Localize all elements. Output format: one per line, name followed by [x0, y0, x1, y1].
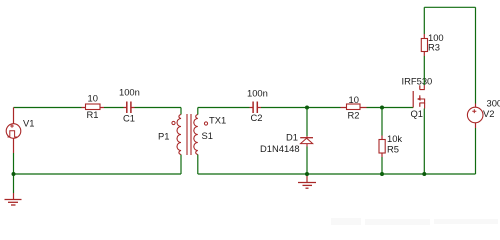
wire drain up: [423, 56, 425, 85]
wire primary bottom down to rail: [180, 155, 182, 175]
wire top-left horizontal V1 to R1: [14, 107, 82, 109]
wire R5 to rail: [381, 157, 383, 174]
svg-text:10k: 10k: [387, 133, 402, 144]
svg-text:R3: R3: [428, 42, 440, 53]
svg-text:C1: C1: [123, 112, 135, 123]
drain hook: [420, 85, 425, 90]
junction ground right: [305, 172, 309, 176]
wire secondary top stub: [197, 108, 199, 115]
svg-text:D1: D1: [286, 132, 298, 143]
wire R5 down: [381, 108, 383, 136]
top rail: [424, 6, 475, 8]
ground right: [298, 174, 316, 188]
svg-text:P1: P1: [158, 131, 169, 142]
bottom rail right: [198, 173, 476, 175]
svg-text:100n: 100n: [247, 87, 268, 98]
core: [186, 114, 188, 155]
ground left: [5, 174, 22, 205]
wire D1 down: [306, 108, 308, 137]
gate bar: [412, 91, 414, 108]
source V2: [467, 98, 500, 123]
wire R1 to C1: [104, 107, 124, 109]
source lead: [424, 103, 426, 109]
junction V1/ground: [12, 172, 16, 176]
wire V1 vertical bottom: [13, 138, 15, 153]
wire source down to rail: [423, 109, 425, 175]
svg-text:R1: R1: [87, 109, 99, 120]
wire V2 bottom: [475, 123, 477, 128]
wire secondary bottom to rail: [197, 155, 199, 175]
wire V1 vertical top: [13, 108, 15, 125]
svg-text:10: 10: [349, 94, 359, 105]
wire C2 to node: [261, 107, 341, 109]
source V1: [6, 118, 34, 139]
channel top tick: [419, 85, 421, 89]
svg-text:R5: R5: [387, 144, 399, 155]
diode D1: [260, 132, 313, 155]
watermark: [331, 218, 498, 225]
wire primary top stub down: [180, 108, 182, 115]
svg-text:Q1: Q1: [411, 108, 424, 119]
svg-text:V1: V1: [23, 118, 34, 129]
capacitor C1: [119, 87, 140, 124]
svg-text:S1: S1: [202, 130, 213, 141]
P1 polarity dot: [172, 121, 175, 124]
junction source/rail: [422, 172, 426, 176]
resistor R3: [421, 32, 443, 56]
svg-text:V2: V2: [483, 108, 494, 119]
wire left bottom rail: [14, 173, 182, 175]
mosfet Q1: [402, 76, 433, 120]
wire C1 to TX1 primary: [135, 107, 182, 109]
svg-text:C2: C2: [251, 112, 263, 123]
capacitor C2: [247, 87, 268, 123]
channel mid tick: [419, 95, 421, 99]
primary winding P1: [177, 115, 181, 155]
junction D1 top: [305, 106, 309, 110]
arrow head: [417, 97, 421, 101]
svg-text:IRF530: IRF530: [402, 76, 433, 87]
S1 polarity dot: [204, 122, 207, 125]
channel bottom tick: [419, 103, 421, 107]
junction R5 top: [380, 106, 384, 110]
svg-text:TX1: TX1: [209, 115, 226, 126]
wire secondary to C2: [198, 107, 250, 109]
wire R3 top: [423, 7, 425, 34]
resistor R2: [341, 94, 367, 121]
svg-text:10: 10: [88, 93, 98, 104]
svg-text:100n: 100n: [119, 87, 140, 98]
body arrow line: [420, 99, 425, 103]
svg-text:300: 300: [487, 98, 500, 109]
secondary winding S1: [194, 115, 198, 155]
svg-text:R2: R2: [348, 110, 360, 121]
wire V2 top: [475, 7, 477, 103]
wire D1 to rail: [306, 147, 308, 175]
svg-text:D1N4148: D1N4148: [260, 143, 300, 154]
wire R2 to gate node: [367, 107, 414, 109]
wire V1 to rail: [13, 153, 15, 174]
transformer TX1: [158, 114, 226, 155]
junction R5 bottom: [380, 172, 384, 176]
resistor R1: [82, 93, 105, 121]
resistor R5: [379, 133, 402, 157]
